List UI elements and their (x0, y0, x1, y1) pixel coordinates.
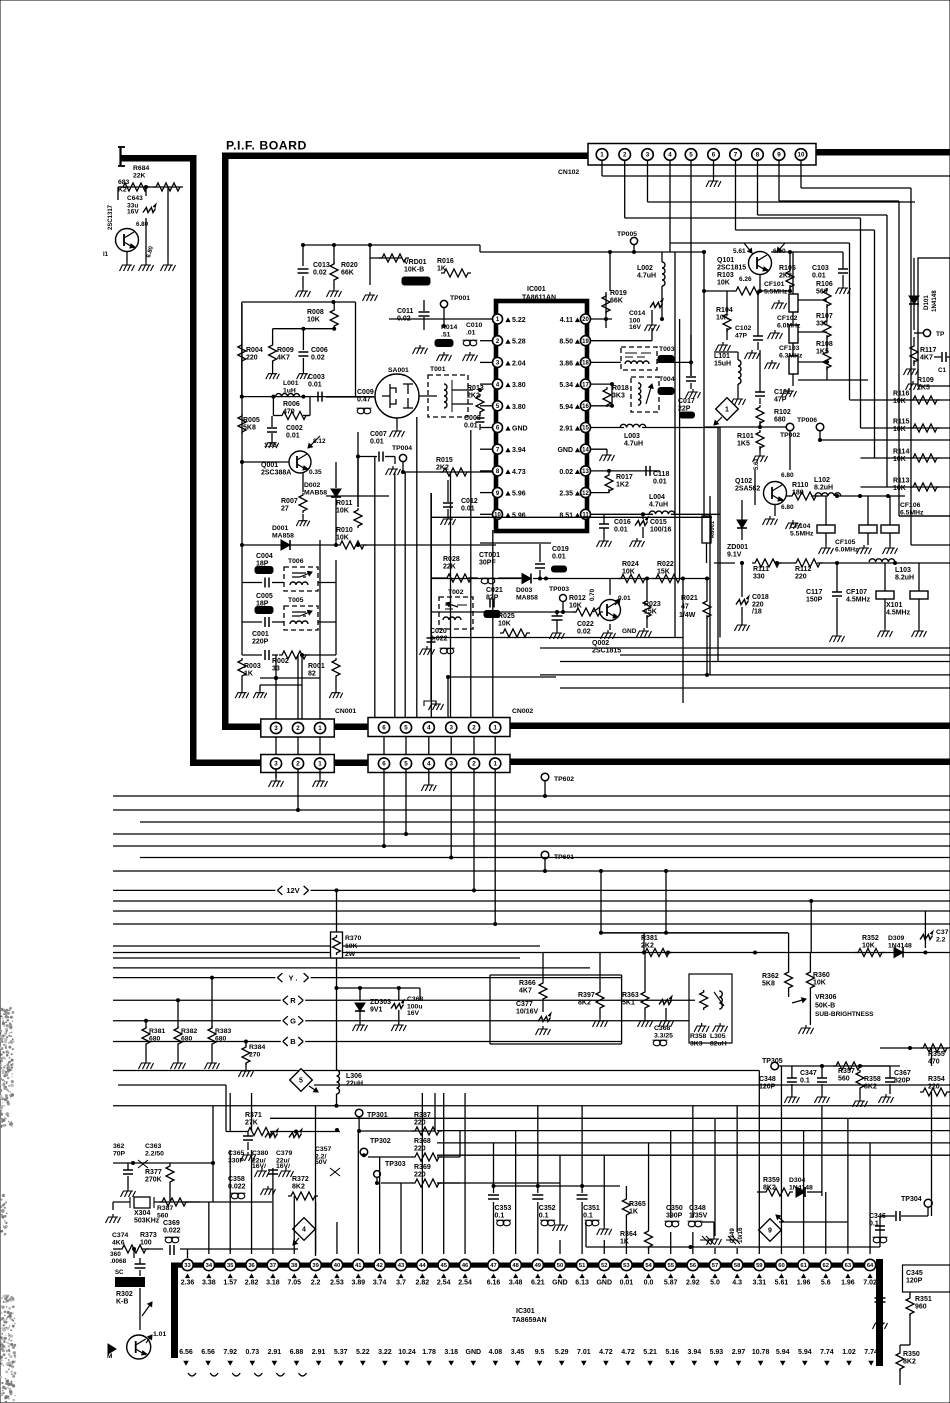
svg-text:41: 41 (355, 1263, 362, 1269)
svg-text:0.01: 0.01 (620, 1280, 634, 1287)
svg-text:R352: R352 (862, 935, 879, 942)
svg-text:R383: R383 (215, 1028, 231, 1035)
svg-text:R015: R015 (436, 457, 453, 464)
svg-text:5.22: 5.22 (512, 317, 526, 324)
svg-text:0.70: 0.70 (589, 588, 596, 601)
svg-text:8.51: 8.51 (559, 512, 573, 519)
svg-text:2.53: 2.53 (330, 1280, 344, 1287)
svg-text:IC301: IC301 (516, 1308, 535, 1315)
svg-text:CN001: CN001 (335, 708, 356, 715)
svg-text:TP001: TP001 (450, 295, 470, 302)
svg-text:T004: T004 (659, 376, 675, 383)
svg-text:CF102: CF102 (777, 315, 798, 322)
svg-text:8.2uH: 8.2uH (895, 575, 914, 582)
svg-text:2SC388A: 2SC388A (261, 470, 291, 477)
svg-text:R6001: R6001 (710, 520, 716, 538)
svg-text:7: 7 (734, 152, 738, 159)
svg-text:4K7: 4K7 (519, 988, 532, 995)
svg-text:14: 14 (582, 447, 589, 453)
svg-text:C352: C352 (539, 1205, 556, 1212)
svg-text:5.22: 5.22 (356, 1349, 370, 1356)
svg-text:2.35: 2.35 (559, 491, 573, 498)
svg-text:T006: T006 (288, 558, 304, 565)
svg-text:3.48: 3.48 (509, 1280, 523, 1287)
svg-text:L002: L002 (637, 265, 653, 272)
svg-text:4.72: 4.72 (599, 1349, 613, 1356)
svg-text:5.94: 5.94 (559, 404, 573, 411)
svg-text:4.7uH: 4.7uH (649, 502, 668, 509)
svg-text:58: 58 (734, 1263, 741, 1269)
svg-text:GND: GND (622, 628, 637, 635)
svg-text:5.87: 5.87 (664, 1280, 678, 1287)
svg-text:4: 4 (427, 761, 431, 768)
svg-text:4K7: 4K7 (277, 355, 290, 362)
svg-text:X101: X101 (886, 602, 902, 609)
svg-text:5.61: 5.61 (754, 458, 760, 470)
svg-text:MAB58: MAB58 (304, 490, 327, 497)
svg-text:C007: C007 (370, 431, 387, 438)
svg-text:17: 17 (582, 382, 589, 388)
svg-text:1: 1 (318, 761, 322, 768)
svg-text:362: 362 (113, 1143, 125, 1150)
svg-text:30PF: 30PF (479, 560, 496, 567)
svg-text:R358: R358 (690, 1033, 706, 1040)
svg-text:R384: R384 (249, 1044, 265, 1051)
svg-text:10K: 10K (569, 603, 582, 610)
svg-text:560: 560 (157, 1213, 169, 1220)
svg-text:6.0MHz: 6.0MHz (835, 547, 859, 554)
svg-text:R018: R018 (612, 385, 629, 392)
svg-text:5.96: 5.96 (512, 512, 526, 519)
svg-text:680: 680 (149, 1036, 161, 1043)
svg-text:1N4148: 1N4148 (888, 943, 912, 950)
svg-text:3: 3 (274, 725, 278, 732)
svg-text:13: 13 (582, 469, 589, 475)
svg-text:43: 43 (398, 1263, 405, 1269)
svg-text:SUB-BRIGHTNESS: SUB-BRIGHTNESS (815, 1011, 874, 1018)
svg-text:C006: C006 (311, 347, 328, 354)
svg-text:45: 45 (440, 1263, 447, 1269)
svg-text:4.73: 4.73 (512, 469, 526, 476)
svg-text:CN002: CN002 (512, 708, 533, 715)
svg-text:3.45: 3.45 (511, 1349, 525, 1356)
svg-text:1.96: 1.96 (841, 1280, 855, 1287)
svg-text:220P: 220P (252, 639, 269, 646)
svg-text:220: 220 (414, 1120, 426, 1127)
svg-text:C346: C346 (869, 1213, 886, 1220)
svg-text:2: 2 (296, 761, 300, 768)
svg-text:R302: R302 (116, 1291, 133, 1298)
svg-text:33: 33 (184, 1263, 191, 1269)
svg-text:C013: C013 (313, 262, 330, 269)
svg-text:R362: R362 (762, 973, 779, 980)
svg-text:66K: 66K (341, 270, 354, 277)
svg-text:GND: GND (512, 426, 528, 433)
svg-text:5.61: 5.61 (733, 248, 746, 255)
svg-text:8K2: 8K2 (903, 1359, 916, 1366)
svg-text:1: 1 (725, 407, 729, 414)
svg-text:4.7uH: 4.7uH (637, 273, 656, 280)
svg-text:220: 220 (246, 355, 258, 362)
svg-text:270: 270 (249, 1052, 261, 1059)
svg-text:5.96: 5.96 (512, 491, 526, 498)
svg-text:R397: R397 (578, 992, 595, 999)
svg-text:CN102: CN102 (558, 169, 579, 176)
svg-text:56: 56 (690, 1263, 697, 1269)
svg-text:10.24: 10.24 (398, 1349, 416, 1356)
svg-text:C368: C368 (654, 1025, 670, 1032)
svg-text:0.01: 0.01 (552, 554, 566, 561)
svg-text:4.5MHz: 4.5MHz (886, 610, 911, 617)
svg-text:R002: R002 (272, 658, 289, 665)
svg-text:C009: C009 (357, 389, 374, 396)
svg-text:6.80: 6.80 (781, 504, 794, 511)
svg-text:66K: 66K (610, 298, 623, 305)
svg-text:R: R (290, 996, 296, 1005)
svg-text:1.78: 1.78 (422, 1349, 436, 1356)
svg-text:680: 680 (215, 1036, 227, 1043)
svg-text:6: 6 (382, 725, 386, 732)
svg-text:2.36: 2.36 (181, 1280, 195, 1287)
svg-text:5.21: 5.21 (643, 1349, 657, 1356)
svg-text:6.21: 6.21 (531, 1280, 545, 1287)
svg-text:R014: R014 (441, 324, 457, 331)
svg-text:D001: D001 (272, 525, 288, 532)
svg-text:R107: R107 (816, 313, 833, 320)
svg-text:70P: 70P (113, 1151, 126, 1158)
svg-text:C377: C377 (516, 1001, 533, 1008)
svg-text:0.1: 0.1 (539, 1213, 549, 1220)
svg-text:4K6: 4K6 (112, 1240, 125, 1247)
svg-text:IC001: IC001 (527, 286, 546, 293)
svg-text:47: 47 (681, 604, 689, 611)
svg-text:82uH: 82uH (710, 1041, 727, 1048)
svg-text:4K7: 4K7 (920, 355, 933, 362)
svg-text:1: 1 (600, 152, 604, 159)
svg-text:D002: D002 (304, 482, 320, 489)
svg-text:0.01: 0.01 (370, 439, 384, 446)
svg-text:49: 49 (535, 1263, 542, 1269)
svg-text:3.38: 3.38 (202, 1280, 216, 1287)
svg-text:5.5MHz: 5.5MHz (764, 289, 788, 296)
svg-text:16V/: 16V/ (276, 1163, 290, 1170)
svg-text:D309: D309 (888, 935, 904, 942)
svg-text:C102: C102 (735, 325, 751, 332)
svg-text:12V: 12V (286, 886, 299, 895)
svg-text:2.54: 2.54 (437, 1280, 451, 1287)
svg-text:2.97: 2.97 (732, 1349, 746, 1356)
svg-text:R101: R101 (737, 433, 754, 440)
svg-text:10: 10 (798, 152, 805, 159)
svg-text:R359: R359 (763, 1177, 780, 1184)
svg-text:39: 39 (312, 1263, 319, 1269)
svg-text:10K: 10K (345, 943, 358, 950)
svg-text:D101: D101 (923, 295, 930, 310)
svg-text:R366: R366 (519, 980, 536, 987)
svg-text:63: 63 (845, 1263, 852, 1269)
svg-text:2: 2 (472, 761, 476, 768)
svg-text:3: 3 (449, 761, 453, 768)
svg-text:ZD001: ZD001 (727, 544, 748, 551)
svg-text:1: 1 (493, 761, 497, 768)
svg-text:P.I.F. BOARD: P.I.F. BOARD (226, 139, 307, 153)
svg-text:1/35V: 1/35V (689, 1213, 708, 1220)
svg-text:2.54: 2.54 (458, 1280, 472, 1287)
svg-text:SC: SC (115, 1270, 124, 1276)
svg-text:6.16: 6.16 (487, 1280, 501, 1287)
svg-text:4.5MHz: 4.5MHz (846, 597, 871, 604)
svg-text:22K: 22K (133, 173, 146, 180)
svg-text:2.2: 2.2 (936, 937, 946, 944)
svg-text:L305: L305 (710, 1033, 726, 1040)
svg-text:3.18: 3.18 (444, 1349, 458, 1356)
svg-text:8.2uH: 8.2uH (814, 485, 833, 492)
svg-text:R022: R022 (657, 561, 674, 568)
svg-text:4: 4 (302, 1227, 306, 1234)
svg-text:G: G (290, 1016, 296, 1025)
svg-text:5.37: 5.37 (334, 1349, 348, 1356)
svg-text:4.3: 4.3 (732, 1280, 742, 1287)
svg-text:9V1: 9V1 (370, 1007, 383, 1014)
svg-text:3.86: 3.86 (559, 360, 573, 367)
svg-text:R009: R009 (277, 347, 294, 354)
svg-text:TP301: TP301 (367, 1112, 388, 1119)
svg-text:C017: C017 (678, 398, 695, 405)
svg-text:220: 220 (414, 1172, 426, 1179)
svg-text:6.56: 6.56 (201, 1349, 215, 1356)
svg-text:3: 3 (646, 152, 650, 159)
svg-text:C101: C101 (774, 389, 791, 396)
svg-text:C1: C1 (938, 367, 946, 374)
svg-text:5.34: 5.34 (559, 382, 573, 389)
svg-text:4.7uH: 4.7uH (624, 441, 643, 448)
svg-text:R364: R364 (620, 1231, 637, 1238)
svg-text:6.56: 6.56 (179, 1349, 193, 1356)
svg-text:1.02: 1.02 (842, 1349, 856, 1356)
svg-text:R106: R106 (816, 281, 833, 288)
svg-text:R115: R115 (893, 419, 909, 426)
svg-text:0.1: 0.1 (495, 1213, 505, 1220)
svg-text:R363: R363 (622, 992, 639, 999)
svg-text:10K: 10K (336, 508, 349, 515)
svg-text:330: 330 (753, 574, 765, 581)
svg-text:9: 9 (768, 1228, 772, 1235)
svg-text:16V: 16V (629, 324, 642, 331)
svg-text:C374: C374 (112, 1232, 128, 1239)
svg-text:10K: 10K (498, 621, 511, 628)
svg-text:Q002: Q002 (592, 640, 609, 647)
svg-text:C348: C348 (759, 1076, 776, 1083)
svg-text:54: 54 (645, 1263, 652, 1269)
svg-text:C117: C117 (806, 589, 822, 596)
svg-text:.51: .51 (441, 332, 451, 339)
svg-text:R684: R684 (133, 165, 149, 172)
svg-text:L101: L101 (714, 353, 730, 360)
svg-text:C021: C021 (486, 587, 503, 594)
svg-text:R019: R019 (610, 290, 627, 297)
svg-text:TP302: TP302 (370, 1138, 391, 1145)
svg-text:55: 55 (667, 1263, 674, 1269)
svg-text:C357: C357 (315, 1146, 331, 1153)
svg-text:100: 100 (140, 1240, 152, 1247)
svg-text:R112: R112 (795, 566, 811, 573)
svg-text:10K: 10K (893, 485, 906, 492)
svg-text:61: 61 (800, 1263, 807, 1269)
svg-text:3: 3 (449, 725, 453, 732)
svg-text:47: 47 (490, 1263, 496, 1269)
svg-text:TP003: TP003 (549, 586, 569, 593)
svg-text:0.02: 0.02 (311, 355, 325, 362)
svg-text:R108: R108 (816, 341, 833, 348)
svg-text:CF105: CF105 (835, 539, 856, 546)
svg-text:4: 4 (668, 152, 672, 159)
svg-text:220: 220 (414, 1146, 426, 1153)
svg-text:7.74: 7.74 (864, 1349, 878, 1356)
svg-text:1.01: 1.01 (153, 1331, 166, 1338)
svg-text:10K: 10K (893, 456, 906, 463)
svg-text:ZD303: ZD303 (370, 999, 391, 1006)
svg-text:C020: C020 (430, 628, 447, 635)
svg-text:VRD01: VRD01 (404, 259, 427, 266)
svg-text:5: 5 (404, 761, 408, 768)
svg-text:L103: L103 (895, 567, 911, 574)
svg-text:2: 2 (623, 152, 627, 159)
svg-text:TA8611AN: TA8611AN (522, 295, 556, 302)
svg-text:560: 560 (838, 1076, 850, 1083)
svg-text:C368: C368 (407, 996, 423, 1003)
svg-text:R377: R377 (145, 1169, 162, 1176)
svg-text:1: 1 (493, 725, 497, 732)
svg-text:0.47: 0.47 (357, 397, 371, 404)
svg-text:6: 6 (712, 152, 716, 159)
svg-text:0.1: 0.1 (800, 1078, 810, 1085)
svg-text:1.06: 1.06 (264, 442, 277, 449)
svg-text:16: 16 (582, 404, 589, 410)
svg-text:5.0: 5.0 (710, 1280, 720, 1287)
svg-text:C010: C010 (466, 322, 482, 329)
svg-text:12: 12 (582, 491, 589, 497)
svg-text:4.08: 4.08 (489, 1349, 503, 1356)
svg-text:R003: R003 (244, 663, 261, 670)
svg-text:7.01: 7.01 (577, 1349, 591, 1356)
svg-text:0.01: 0.01 (614, 527, 628, 534)
svg-text:R024: R024 (622, 561, 639, 568)
svg-text:5.29: 5.29 (555, 1349, 569, 1356)
svg-text:C353: C353 (495, 1205, 512, 1212)
svg-text:.0068: .0068 (110, 1258, 127, 1265)
svg-text:C347: C347 (800, 1070, 817, 1077)
svg-text:R025: R025 (498, 613, 515, 620)
svg-text:9.1V: 9.1V (727, 552, 742, 559)
svg-text:18: 18 (582, 361, 589, 367)
svg-text:C018: C018 (752, 594, 769, 601)
svg-text:Q101: Q101 (717, 257, 734, 264)
svg-text:SA001: SA001 (388, 367, 409, 374)
svg-text:0.1: 0.1 (583, 1213, 593, 1220)
svg-text:5.5MHz: 5.5MHz (790, 531, 814, 538)
svg-text:T001: T001 (430, 366, 446, 373)
svg-text:TP006: TP006 (797, 417, 817, 424)
svg-text:8K2: 8K2 (578, 1000, 591, 1007)
svg-text:C003: C003 (308, 374, 325, 381)
svg-text:683: 683 (118, 179, 130, 186)
svg-text:1: 1 (318, 725, 322, 732)
svg-text:82: 82 (308, 671, 316, 678)
svg-text:7.02: 7.02 (863, 1280, 877, 1287)
svg-text:I1: I1 (103, 252, 109, 258)
svg-text:L001: L001 (283, 380, 299, 387)
svg-text:5.28: 5.28 (512, 339, 526, 346)
svg-text:3.7: 3.7 (396, 1280, 406, 1287)
svg-text:CF101: CF101 (764, 281, 785, 288)
svg-text:R109: R109 (917, 377, 934, 384)
svg-text:6.80: 6.80 (136, 221, 149, 228)
svg-text:680: 680 (774, 417, 786, 424)
svg-text:5.61: 5.61 (775, 1280, 789, 1287)
svg-text:R387: R387 (157, 1205, 173, 1212)
svg-text:503KHz: 503KHz (134, 1218, 160, 1225)
svg-text:5.94: 5.94 (798, 1349, 812, 1356)
svg-text:3.94: 3.94 (687, 1349, 701, 1356)
svg-text:10.78: 10.78 (752, 1349, 770, 1356)
svg-text:TP303: TP303 (385, 1161, 406, 1168)
svg-text:C002: C002 (286, 425, 303, 432)
svg-text:8K2: 8K2 (864, 1084, 877, 1091)
svg-text:34: 34 (206, 1263, 213, 1269)
svg-text:C004: C004 (256, 553, 273, 560)
svg-text:R110: R110 (792, 482, 808, 489)
svg-text:0.01: 0.01 (653, 479, 667, 486)
svg-text:CF103: CF103 (779, 345, 800, 352)
svg-text:2.92: 2.92 (686, 1280, 700, 1287)
svg-text:2.91: 2.91 (268, 1349, 282, 1356)
svg-text:59: 59 (756, 1263, 763, 1269)
svg-text:3.94: 3.94 (512, 447, 526, 454)
svg-text:R010: R010 (336, 527, 353, 534)
svg-text:2.04: 2.04 (512, 360, 526, 367)
svg-text:T003: T003 (659, 346, 675, 353)
svg-text:3K3: 3K3 (612, 393, 625, 400)
svg-text:L306: L306 (346, 1073, 362, 1080)
svg-text:3.31: 3.31 (752, 1280, 766, 1287)
svg-text:2.91: 2.91 (559, 426, 573, 433)
svg-text:R350: R350 (903, 1351, 920, 1358)
svg-text:10K-B: 10K-B (404, 267, 424, 274)
svg-text:960: 960 (915, 1304, 927, 1311)
svg-text:R017: R017 (616, 474, 633, 481)
svg-text:C005: C005 (256, 593, 273, 600)
svg-text:VR306: VR306 (815, 994, 837, 1001)
svg-text:B: B (290, 1037, 296, 1046)
svg-text:3.3/25: 3.3/25 (654, 1033, 673, 1040)
svg-text:0.02: 0.02 (313, 270, 327, 277)
svg-text:4.11: 4.11 (560, 317, 573, 324)
svg-text:T005: T005 (288, 597, 304, 604)
svg-text:15K: 15K (657, 569, 670, 576)
svg-text:2: 2 (472, 725, 476, 732)
svg-text:120P: 120P (906, 1278, 923, 1285)
svg-text:16V: 16V (407, 1010, 420, 1017)
svg-text:TA8659AN: TA8659AN (512, 1317, 547, 1324)
svg-text:C345: C345 (906, 1270, 923, 1277)
svg-text:D304: D304 (789, 1177, 805, 1184)
svg-text:0.0: 0.0 (644, 1280, 654, 1287)
svg-text:680: 680 (181, 1036, 193, 1043)
svg-text:50V: 50V (315, 1159, 328, 1166)
svg-text:7.05: 7.05 (287, 1280, 301, 1287)
svg-text:C016: C016 (614, 519, 631, 526)
svg-text:2: 2 (296, 725, 300, 732)
